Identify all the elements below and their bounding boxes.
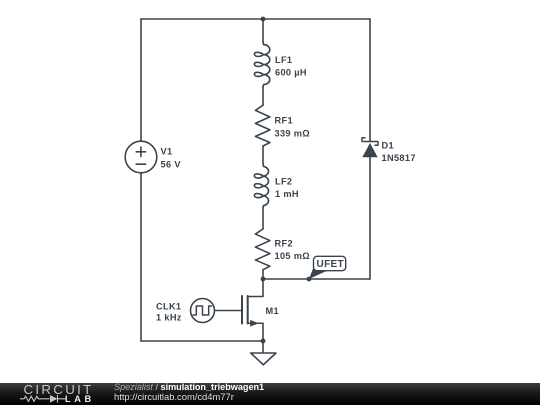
node dot UFET anchor — [307, 277, 312, 282]
inductor LF2 — [254, 164, 268, 208]
resistor RF2 — [255, 229, 270, 270]
node dot UFET net left — [261, 277, 266, 282]
UFET flag box — [314, 256, 346, 270]
svg-text:105 mΩ: 105 mΩ — [275, 251, 311, 261]
svg-text:D1: D1 — [382, 141, 394, 151]
svg-text:1 mH: 1 mH — [275, 189, 299, 199]
svg-text:1N5817: 1N5817 — [382, 153, 416, 163]
CircuitLab logo wordmark LAB — [65, 395, 95, 404]
UFET flag pointer — [309, 262, 328, 279]
svg-text:UFET: UFET — [317, 259, 345, 270]
transistor M1 gate bar — [241, 296, 243, 324]
caption line 1 — [114, 383, 264, 392]
node dot top — [261, 17, 266, 22]
caption line 2 — [114, 392, 234, 401]
wire left lower (V1 bottom to bottom rail) — [140, 173, 142, 341]
wire right vertical lower (D1 anode to node) — [369, 158, 371, 280]
wire middle top (top rail to LF1) — [262, 19, 264, 42]
wire bottom horizontal — [141, 340, 263, 342]
wire left upper (top rail to V1 top) — [140, 19, 142, 141]
inductor LF1 — [254, 42, 269, 87]
CircuitLab logo glyph (resistor + diode) — [19, 394, 67, 404]
wire source lead (M1 source to bottom rail) — [248, 323, 263, 341]
svg-text:RF2: RF2 — [275, 238, 293, 248]
svg-text:V1: V1 — [161, 147, 173, 157]
wire LF1 to RF1 — [262, 87, 264, 106]
svg-text:LF2: LF2 — [275, 177, 292, 187]
wire LF2 to RF2 — [262, 208, 264, 229]
wire top horizontal — [141, 18, 370, 20]
transistor M1 source arrow — [250, 320, 258, 327]
voltage source V1 — [125, 141, 157, 173]
transistor M1 channel bar — [247, 296, 249, 324]
resistor RF1 — [255, 105, 270, 146]
svg-text:339 mΩ: 339 mΩ — [275, 128, 311, 138]
wire node horizontal (UFET net) — [263, 278, 370, 280]
diode D1 triangle — [362, 143, 377, 157]
svg-text:RF1: RF1 — [275, 116, 293, 126]
ground symbol — [251, 353, 276, 365]
wire right vertical upper (top rail to D1 cathode) — [369, 19, 371, 142]
wire RF2 to node — [262, 270, 264, 279]
svg-text:56 V: 56 V — [161, 159, 182, 169]
svg-text:600 µH: 600 µH — [275, 67, 307, 77]
wire drain (node to M1 drain) — [248, 279, 263, 297]
svg-text:CLK1: CLK1 — [156, 301, 181, 311]
CLK1 square wave glyph — [193, 306, 212, 315]
wire gate lead (CLK1 to M1 gate) — [215, 310, 243, 312]
CircuitLab logo wordmark CIRCUIT — [24, 383, 94, 396]
clock source CLK1 circle — [191, 299, 215, 323]
diode D1 cathode bar with schottky hooks — [362, 138, 378, 146]
svg-text:LF1: LF1 — [275, 55, 292, 65]
wire source to ground — [262, 341, 264, 353]
svg-text:1 kHz: 1 kHz — [156, 312, 182, 322]
node dot source/bottom rail — [261, 339, 266, 344]
wire RF1 to LF2 — [262, 146, 264, 164]
svg-text:M1: M1 — [266, 306, 279, 316]
